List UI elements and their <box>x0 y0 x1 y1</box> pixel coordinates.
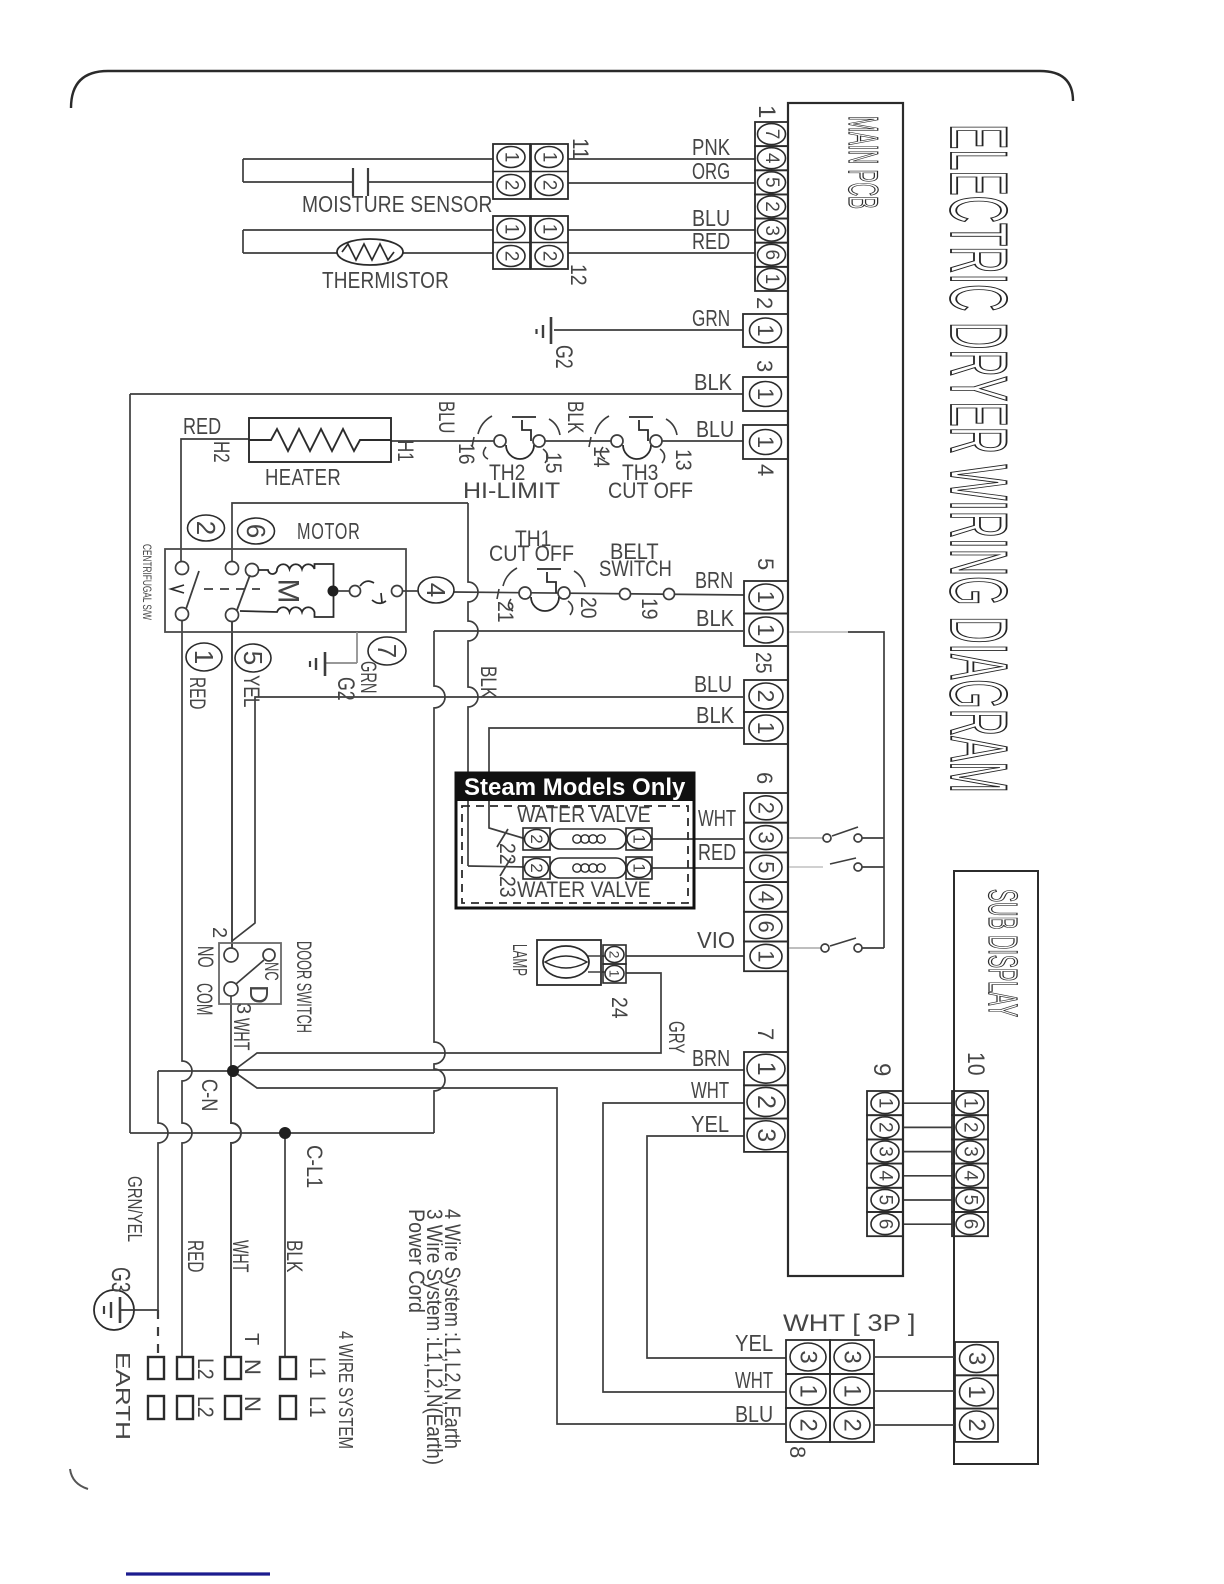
moisture sensor circuit <box>243 158 493 160</box>
main PCB box <box>788 103 903 1276</box>
wire BLU door NO to PCB conn25 pin2 <box>232 697 743 941</box>
svg-text:6: 6 <box>752 772 777 784</box>
svg-text:2: 2 <box>839 1418 866 1431</box>
connector 9 <box>867 1091 903 1115</box>
svg-text:N: N <box>240 1396 265 1412</box>
door lever <box>236 960 264 984</box>
svg-text:WATER VALVE: WATER VALVE <box>517 877 651 902</box>
connector 6 <box>744 793 788 823</box>
relay contact 2 <box>830 858 856 864</box>
lamp symbol <box>543 946 589 978</box>
wire G3 stub <box>134 1309 158 1311</box>
svg-text:CUT OFF: CUT OFF <box>608 478 693 503</box>
svg-text:L1: L1 <box>305 1396 330 1418</box>
svg-text:SUB DISPLAY: SUB DISPLAY <box>980 889 1026 1017</box>
water valve 2 pin23 <box>523 857 550 879</box>
svg-text:1: 1 <box>630 834 649 843</box>
wire BLK PCB conn3 loop left <box>130 393 743 395</box>
svg-text:WHT [ 3P ]: WHT [ 3P ] <box>783 1310 916 1337</box>
svg-text:23: 23 <box>495 876 520 898</box>
svg-text:H1: H1 <box>393 440 418 462</box>
motor winding <box>240 564 334 617</box>
motor ground stub <box>356 632 358 663</box>
svg-text:WATER VALVE: WATER VALVE <box>517 802 651 827</box>
connector 3 <box>743 377 788 411</box>
svg-text:8: 8 <box>785 1446 810 1458</box>
levers <box>186 571 199 609</box>
svg-text:5: 5 <box>761 177 782 188</box>
svg-text:5: 5 <box>960 1195 981 1206</box>
svg-text:2: 2 <box>960 1122 981 1133</box>
wire BLK PCB conn5 pin2 left <box>434 630 743 632</box>
svg-text:BLU: BLU <box>735 1401 773 1427</box>
svg-text:1: 1 <box>753 436 778 448</box>
svg-text:20: 20 <box>576 597 601 619</box>
wire BLK motor6 vertical to water valve2, hops at 592,631,697 <box>468 503 478 866</box>
motor circled 1 <box>186 643 222 671</box>
motor box <box>165 549 406 632</box>
svg-text:BLK: BLK <box>694 369 733 395</box>
relay contact 3 <box>821 944 829 952</box>
belt switch pins 19 <box>620 589 631 600</box>
svg-text:1: 1 <box>607 970 623 978</box>
svg-text:G3: G3 <box>106 1267 136 1293</box>
door switch box <box>219 943 281 1004</box>
door NO contact <box>224 948 238 962</box>
svg-text:BLK: BLK <box>696 702 735 728</box>
connector 8 <box>786 1340 830 1374</box>
svg-text:BLU: BLU <box>696 416 734 442</box>
terminal boxes row2 <box>148 1396 164 1419</box>
svg-text:6: 6 <box>241 524 271 538</box>
svg-text:2: 2 <box>607 951 623 959</box>
wires conn8 to sub display <box>874 1356 955 1358</box>
svg-text:4: 4 <box>875 1170 896 1181</box>
svg-text:5: 5 <box>875 1195 896 1206</box>
svg-text:1: 1 <box>761 274 782 285</box>
svg-text:6: 6 <box>754 921 779 933</box>
svg-text:1: 1 <box>753 591 779 604</box>
svg-text:RED: RED <box>692 228 730 254</box>
svg-text:9: 9 <box>868 1063 895 1076</box>
svg-text:ELECTRIC DRYER WIRING DIAGRAM: ELECTRIC DRYER WIRING DIAGRAM <box>933 124 1023 793</box>
svg-text:NC: NC <box>260 962 281 981</box>
blue underline artifact <box>126 1572 270 1575</box>
svg-text:1: 1 <box>753 624 779 637</box>
svg-text:L2: L2 <box>193 1358 218 1380</box>
label /23 <box>500 858 511 876</box>
svg-text:1: 1 <box>875 1098 896 1109</box>
svg-text:15: 15 <box>541 452 566 474</box>
svg-text:6: 6 <box>960 1219 981 1230</box>
svg-text:RED: RED <box>183 1240 208 1272</box>
svg-text:BRN: BRN <box>695 567 733 593</box>
protector contact <box>338 590 349 592</box>
svg-text:2: 2 <box>963 1418 990 1431</box>
svg-text:1: 1 <box>539 152 560 163</box>
svg-text:1: 1 <box>960 1098 981 1109</box>
svg-text:3: 3 <box>761 225 782 236</box>
svg-text:C-N: C-N <box>197 1079 222 1111</box>
svg-text:1: 1 <box>754 950 779 962</box>
svg-text:THERMISTOR: THERMISTOR <box>322 267 449 293</box>
svg-text:1: 1 <box>189 650 219 664</box>
thermistor circuit <box>243 229 493 231</box>
connector 24 <box>603 945 626 964</box>
svg-text:5: 5 <box>238 651 268 665</box>
svg-text:3: 3 <box>960 1146 981 1157</box>
svg-text:BLU: BLU <box>434 401 459 433</box>
svg-text:16: 16 <box>454 443 479 465</box>
svg-text:1: 1 <box>753 324 778 336</box>
svg-text:SWITCH: SWITCH <box>599 556 672 581</box>
svg-text:BLK: BLK <box>696 605 735 631</box>
svg-text:BLU: BLU <box>694 671 732 697</box>
svg-text:3: 3 <box>232 1003 254 1014</box>
svg-text:2: 2 <box>501 180 522 191</box>
wire BLK left loop vertical <box>129 394 131 1133</box>
svg-text:M: M <box>272 579 305 604</box>
connector 2 <box>743 314 788 347</box>
svg-text:RED: RED <box>698 839 736 865</box>
wire water valve2 feed <box>468 866 526 867</box>
svg-text:1: 1 <box>753 388 778 400</box>
wire GRN ground G2 to PCB conn2 <box>554 329 743 331</box>
wire motor switch to belt switch (4) <box>454 592 744 595</box>
relay contact 1 <box>823 834 831 842</box>
svg-text:N: N <box>240 1359 265 1375</box>
svg-text:1: 1 <box>839 1384 866 1397</box>
door NC contact <box>263 949 275 961</box>
svg-text:HI-LIMIT: HI-LIMIT <box>463 478 560 503</box>
svg-text:MAIN PCB: MAIN PCB <box>840 116 887 209</box>
svg-text:6: 6 <box>875 1219 896 1230</box>
connector 4 <box>743 425 788 459</box>
wire C-N left to earth drop <box>158 1070 233 1072</box>
water valve 1 pin22 <box>523 828 550 850</box>
motor circled 5 <box>235 644 271 672</box>
earth symbol G3 <box>94 1290 134 1330</box>
svg-text:24: 24 <box>607 997 632 1019</box>
svg-text:3: 3 <box>963 1352 990 1365</box>
svg-text:1: 1 <box>630 863 649 872</box>
svg-text:C-L1: C-L1 <box>302 1145 327 1188</box>
page border top <box>71 71 1073 108</box>
connector 1 on PCB <box>755 122 788 146</box>
svg-text:3: 3 <box>752 360 777 372</box>
svg-text:1: 1 <box>501 152 522 163</box>
svg-text:25: 25 <box>751 652 776 674</box>
svg-text:2: 2 <box>501 251 522 262</box>
wire RED water valve2 to PCB conn6 pin5 <box>652 867 744 869</box>
wire BLU thermistor pin1 to PCB3 <box>568 229 755 231</box>
svg-text:1: 1 <box>795 1384 822 1397</box>
svg-text:1: 1 <box>963 1385 990 1398</box>
svg-text:14: 14 <box>589 446 614 468</box>
svg-text:COM: COM <box>192 983 217 1015</box>
wire GRN/YEL earth vertical, hop at 1133 <box>158 1071 168 1310</box>
svg-text:BLK: BLK <box>563 401 588 434</box>
svg-text:Steam Models Only: Steam Models Only <box>464 774 686 801</box>
svg-text:L1: L1 <box>305 1357 330 1379</box>
svg-text:D: D <box>244 985 274 1004</box>
motor centrifugal contacts <box>176 562 189 575</box>
connector 12 <box>493 216 530 269</box>
svg-text:DOOR SWITCH: DOOR SWITCH <box>292 941 315 1033</box>
svg-text:BLK: BLK <box>282 1240 307 1273</box>
svg-text:2: 2 <box>527 863 546 872</box>
svg-text:6: 6 <box>761 249 782 260</box>
wire BLK C-L1 to L1 terminal <box>284 1133 286 1357</box>
svg-text:7: 7 <box>761 129 782 140</box>
connector 5 <box>744 581 788 614</box>
svg-text:2: 2 <box>754 802 779 814</box>
svg-text:4: 4 <box>753 464 778 476</box>
svg-text:2: 2 <box>761 201 782 212</box>
wire YEL conn7 pin3 to WHT[3P] <box>647 1136 786 1358</box>
label /22 <box>497 829 508 847</box>
svg-text:7: 7 <box>753 1028 778 1040</box>
lamp box <box>537 940 601 985</box>
wire TH2 to TH3 <box>539 440 617 442</box>
svg-text:5: 5 <box>753 558 778 570</box>
connector 7 <box>744 1052 788 1085</box>
wire relay3 <box>789 947 821 949</box>
svg-text:4: 4 <box>960 1170 981 1181</box>
svg-text:2: 2 <box>539 251 560 262</box>
inner dashed box <box>462 806 688 903</box>
svg-text:WHT: WHT <box>229 1018 254 1050</box>
svg-text:3: 3 <box>875 1146 896 1157</box>
connector 25 <box>744 680 788 712</box>
svg-text:WHT: WHT <box>228 1240 253 1272</box>
motor circled 7 GRN <box>368 637 406 665</box>
svg-text:MOISTURE SENSOR: MOISTURE SENSOR <box>302 191 493 217</box>
wire PCB relay common vertical <box>848 632 884 948</box>
thermal switch TH1 CUT OFF pins 21/20 <box>503 568 517 586</box>
wire C-N to BLU drop <box>233 1071 786 1424</box>
svg-text:4: 4 <box>761 153 782 164</box>
svg-text:L2: L2 <box>193 1396 218 1418</box>
wire WHT door COM to C-N and N terminal, hop at 1133 <box>230 996 232 1071</box>
steam models only box <box>456 773 694 908</box>
door COM contact <box>224 982 238 996</box>
connector 11 <box>493 144 530 199</box>
wire WHT water valve1 to PCB conn6 pin3 <box>652 838 744 840</box>
svg-text:13: 13 <box>671 449 696 471</box>
mech link dashes <box>204 588 260 590</box>
svg-text:BLK: BLK <box>476 666 501 699</box>
wire relay1 <box>789 837 823 839</box>
svg-text:YEL: YEL <box>239 675 264 707</box>
svg-text:1: 1 <box>752 1062 780 1076</box>
svg-text:HEATER: HEATER <box>265 464 341 490</box>
svg-text:22: 22 <box>495 843 520 865</box>
page border bottom-left corner <box>70 1469 88 1489</box>
wire VIO lamp to PCB conn6 pin1 <box>626 955 744 957</box>
svg-text:2: 2 <box>875 1122 896 1133</box>
svg-text:4 WIRE SYSTEM: 4 WIRE SYSTEM <box>334 1331 356 1449</box>
svg-text:1: 1 <box>539 224 560 235</box>
svg-text:CENTRIFUGAL S/W: CENTRIFUGAL S/W <box>140 544 154 620</box>
svg-text:G2: G2 <box>550 345 577 369</box>
motor circled 6 <box>238 518 275 544</box>
actuate arrow <box>171 585 184 593</box>
svg-text:2: 2 <box>752 1095 780 1109</box>
svg-text:YEL: YEL <box>735 1330 773 1356</box>
svg-text:YEL: YEL <box>691 1111 729 1137</box>
wire motor terminal6 loop over motor <box>232 503 468 562</box>
wire BLU TH3 to PCB conn4 <box>656 440 743 442</box>
svg-text:3: 3 <box>752 1128 780 1142</box>
svg-text:WHT: WHT <box>698 805 736 831</box>
thermal switch TH2 HI-LIMIT pins 16/15 <box>478 416 492 434</box>
wire PNK moisture pin1 to PCB4 <box>568 158 755 160</box>
svg-text:GRN/YEL: GRN/YEL <box>123 1176 145 1242</box>
node C-N <box>227 1065 239 1077</box>
svg-text:ORG: ORG <box>692 158 730 184</box>
svg-text:4: 4 <box>421 583 451 597</box>
svg-text:T: T <box>240 1333 262 1345</box>
node C-L1 <box>279 1127 291 1139</box>
wire relay2 <box>789 866 823 868</box>
svg-text:PNK: PNK <box>692 134 731 160</box>
svg-text:NO: NO <box>193 946 218 968</box>
sub display connector 3/1/2 <box>955 1342 998 1375</box>
svg-text:G2: G2 <box>332 677 359 701</box>
heater box H1 <box>249 418 391 462</box>
svg-text:12: 12 <box>566 264 591 286</box>
svg-text:H2: H2 <box>209 441 234 463</box>
svg-text:1: 1 <box>501 224 522 235</box>
thermistor symbol <box>337 239 403 265</box>
svg-text:2: 2 <box>208 927 230 938</box>
svg-text:2: 2 <box>752 297 777 309</box>
connector 10 <box>952 1091 988 1115</box>
svg-text:WHT: WHT <box>735 1367 773 1393</box>
wire RED heater feed <box>181 439 249 568</box>
wires conn9 to conn10 <box>903 1102 952 1104</box>
svg-text:BRN: BRN <box>692 1045 730 1071</box>
svg-text:3: 3 <box>839 1350 866 1363</box>
svg-text:1: 1 <box>753 105 780 118</box>
svg-text:10: 10 <box>962 1052 989 1076</box>
svg-text:21: 21 <box>493 601 518 623</box>
wire BLK conn5 vertical to C-L1, hops at 697,1053,1080 <box>434 631 445 1133</box>
sub display box <box>954 871 1038 1464</box>
svg-text:11: 11 <box>568 138 593 160</box>
svg-text:RED: RED <box>185 677 210 709</box>
ground G2 <box>550 317 553 344</box>
svg-text:VIO: VIO <box>697 927 735 953</box>
motor circled 4 <box>418 577 454 603</box>
wire GRY lamp return to C-N <box>233 973 661 1071</box>
terminal boxes row1 <box>148 1357 164 1379</box>
wire YEL motor5 to door switch NO <box>231 622 233 948</box>
svg-text:RED: RED <box>183 413 221 439</box>
svg-text:4 Wire System :L1,L2,N,Earth: 4 Wire System :L1,L2,N,Earth <box>440 1209 465 1449</box>
svg-text:7: 7 <box>372 644 402 658</box>
svg-text:CUT OFF: CUT OFF <box>489 541 574 566</box>
thermal switch TH3 CUT OFF pins 14/13 <box>595 416 609 434</box>
wire BLK PCB conn25 pin1 to water valve1 <box>489 728 743 839</box>
motor circled 2 <box>188 515 225 541</box>
wire BRN C-N to PCB conn7 pin1 <box>233 1069 744 1071</box>
svg-text:WHT: WHT <box>691 1077 729 1103</box>
wire earth dashed drop <box>157 1310 159 1355</box>
svg-text:MOTOR: MOTOR <box>297 518 361 544</box>
svg-text:GRN: GRN <box>692 305 730 331</box>
svg-text:3: 3 <box>754 831 779 843</box>
svg-text:3: 3 <box>795 1350 822 1363</box>
wire C-L1 horizontal <box>130 1132 434 1134</box>
wire heater to TH2 <box>391 440 500 442</box>
svg-text:2: 2 <box>539 180 560 191</box>
wire WHT conn7 pin2 to WHT[3P] <box>603 1103 786 1392</box>
wire RED centrifugal to power, hops at 1071 and 1133 <box>182 621 192 1357</box>
svg-text:EARTH: EARTH <box>111 1352 133 1440</box>
wire ORG moisture pin2 to PCB5 <box>568 182 755 184</box>
svg-text:2: 2 <box>795 1418 822 1431</box>
svg-text:LAMP: LAMP <box>508 944 530 976</box>
svg-text:1: 1 <box>753 722 779 735</box>
wire RED thermistor pin2 to PCB6 <box>568 252 755 254</box>
svg-text:2: 2 <box>191 521 221 535</box>
winding junction node <box>328 586 339 597</box>
svg-text:5: 5 <box>754 861 779 873</box>
ground G2 motor <box>324 652 327 676</box>
moisture sensor electrodes <box>352 168 354 196</box>
svg-text:4: 4 <box>754 891 779 903</box>
svg-text:GRY: GRY <box>664 1021 689 1054</box>
svg-text:2: 2 <box>753 690 779 703</box>
svg-text:2: 2 <box>527 834 546 843</box>
svg-text:19: 19 <box>637 598 662 620</box>
